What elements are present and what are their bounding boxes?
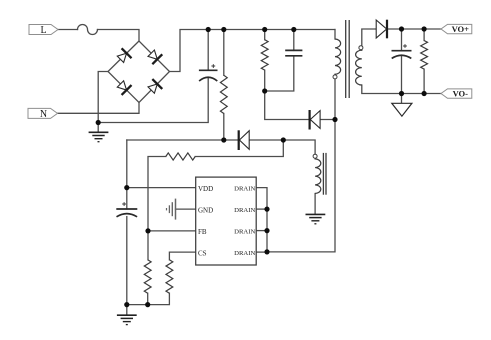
svg-text:VO+: VO+ xyxy=(452,24,470,34)
svg-text:L: L xyxy=(40,25,46,36)
svg-text:DRAIN: DRAIN xyxy=(234,229,255,236)
svg-text:VDD: VDD xyxy=(198,185,213,193)
svg-text:DRAIN: DRAIN xyxy=(234,186,255,193)
svg-text:FB: FB xyxy=(198,228,207,236)
svg-text:DRAIN: DRAIN xyxy=(234,207,255,214)
svg-text:DRAIN: DRAIN xyxy=(234,250,255,257)
svg-text:VO-: VO- xyxy=(453,88,469,98)
svg-text:GND: GND xyxy=(198,206,213,214)
svg-text:CS: CS xyxy=(198,249,207,257)
svg-text:N: N xyxy=(40,109,47,120)
